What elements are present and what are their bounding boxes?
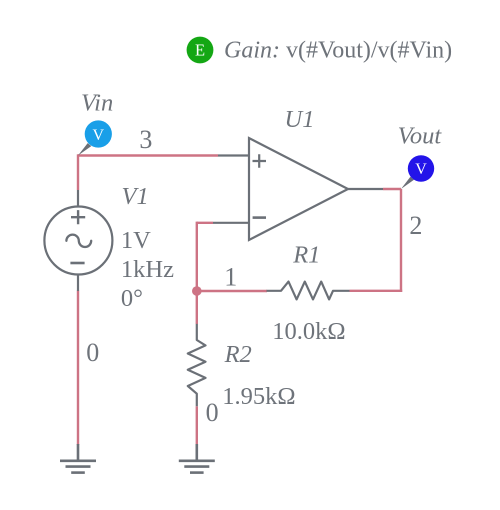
svg-text:1: 1 bbox=[224, 262, 237, 291]
svg-text:E: E bbox=[195, 41, 205, 60]
svg-text:1.95kΩ: 1.95kΩ bbox=[222, 383, 295, 410]
svg-text:Gain: v(#Vout)/v(#Vin): Gain: v(#Vout)/v(#Vin) bbox=[224, 38, 452, 64]
svg-text:V: V bbox=[93, 127, 105, 144]
svg-text:V1: V1 bbox=[122, 183, 149, 210]
svg-text:U1: U1 bbox=[285, 106, 315, 133]
svg-text:Vout: Vout bbox=[398, 123, 443, 150]
svg-text:2: 2 bbox=[409, 211, 422, 240]
svg-text:0: 0 bbox=[86, 338, 99, 367]
svg-text:R1: R1 bbox=[292, 242, 320, 269]
svg-text:1V: 1V bbox=[121, 227, 151, 254]
svg-text:10.0kΩ: 10.0kΩ bbox=[272, 318, 345, 345]
svg-text:R2: R2 bbox=[224, 341, 252, 368]
svg-text:1kHz: 1kHz bbox=[121, 256, 174, 283]
svg-text:Vin: Vin bbox=[81, 89, 113, 116]
svg-text:0°: 0° bbox=[121, 285, 143, 312]
svg-text:0: 0 bbox=[206, 398, 219, 427]
svg-text:V: V bbox=[415, 161, 427, 178]
svg-text:3: 3 bbox=[139, 125, 152, 154]
